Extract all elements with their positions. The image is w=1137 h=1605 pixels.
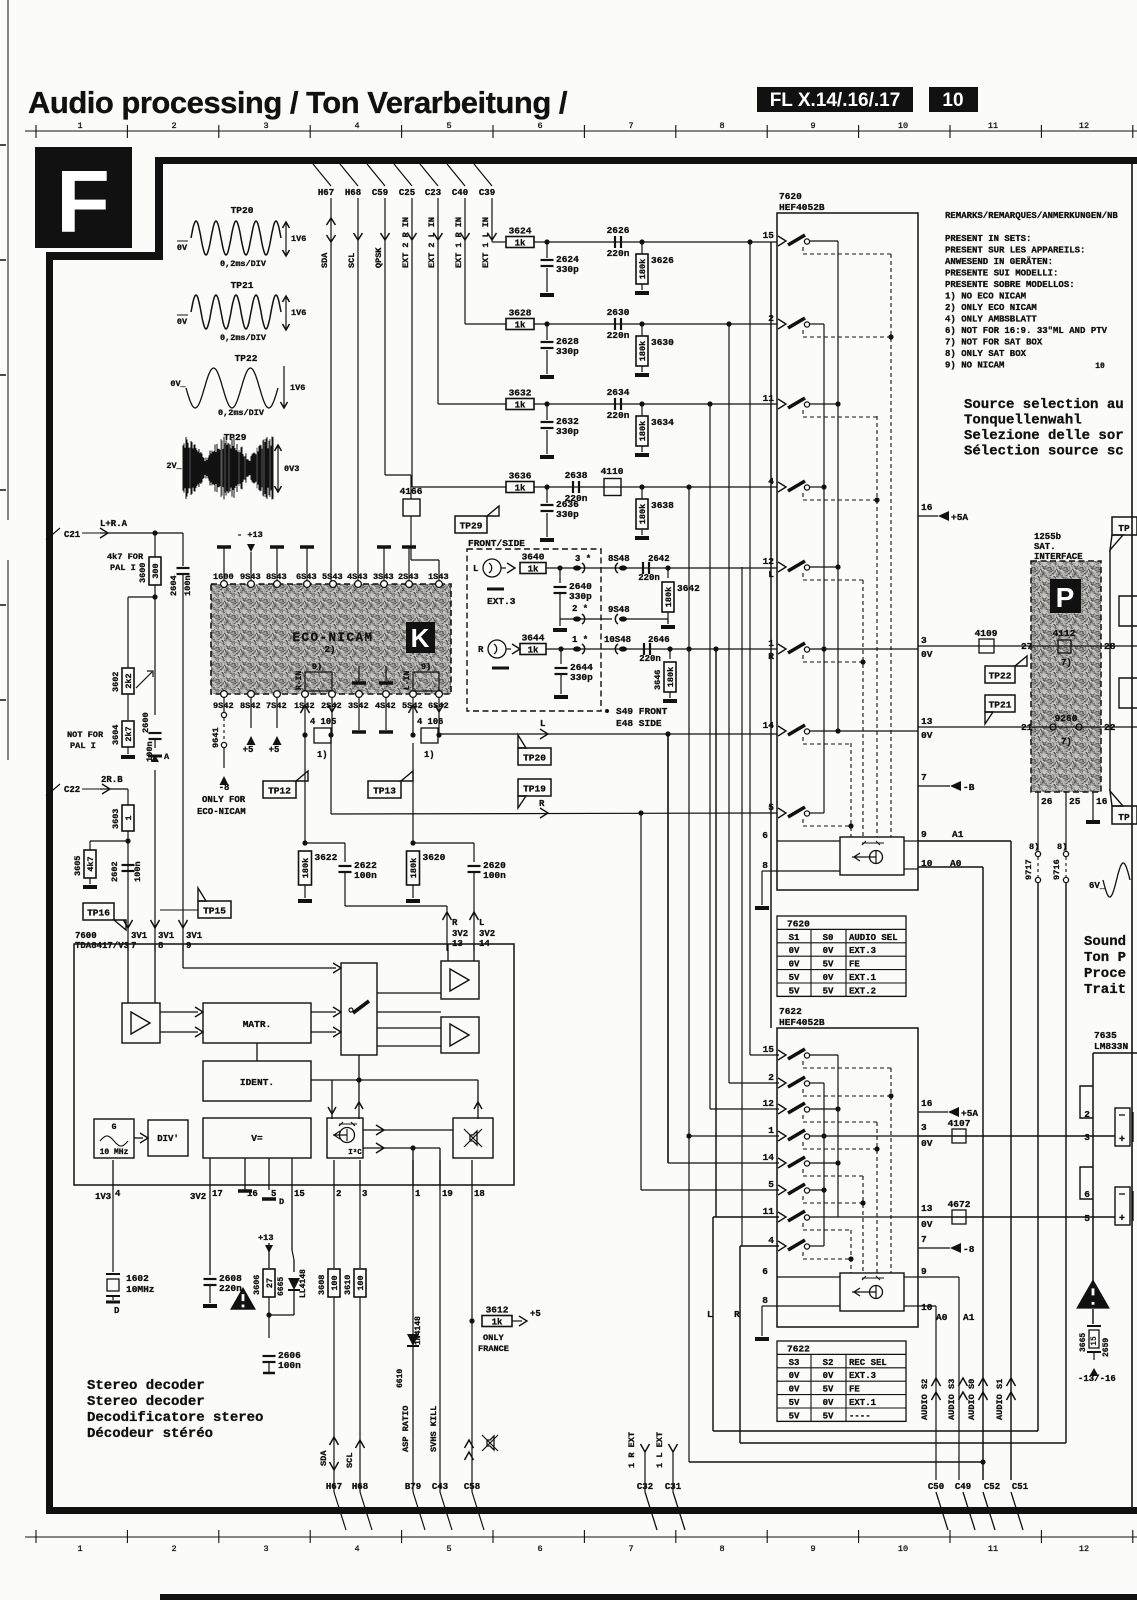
svg-text:2600: 2600 [141, 712, 151, 733]
svg-text:3602: 3602 [111, 672, 121, 692]
svg-text:+13: +13 [258, 1233, 273, 1243]
svg-text:8): 8) [1029, 842, 1039, 852]
svg-text:10: 10 [898, 1544, 908, 1554]
svg-text:180k: 180k [638, 341, 648, 361]
svg-text:2k7: 2k7 [124, 726, 134, 741]
svg-text:Tonquellenwahl: Tonquellenwahl [964, 413, 1082, 429]
svg-text:11: 11 [763, 393, 775, 404]
svg-text:1k: 1k [492, 1317, 503, 1327]
svg-text:ONLY FOR: ONLY FOR [202, 795, 246, 805]
svg-text:4 106: 4 106 [417, 717, 443, 727]
svg-text:6: 6 [762, 830, 768, 841]
svg-text:V=: V= [251, 1133, 263, 1144]
svg-text:0V: 0V [789, 946, 800, 956]
svg-text:2634: 2634 [607, 387, 630, 398]
svg-text:2S43: 2S43 [398, 572, 419, 582]
svg-text:TP29: TP29 [460, 521, 483, 532]
svg-text:7622: 7622 [779, 1006, 802, 1017]
svg-text:330p: 330p [556, 346, 579, 357]
svg-text:ONLY: ONLY [483, 1333, 504, 1343]
svg-text:16: 16 [921, 1098, 933, 1109]
svg-text:7: 7 [921, 772, 927, 783]
svg-text:7: 7 [628, 1544, 633, 1554]
svg-text:180k: 180k [301, 858, 311, 878]
svg-text:EXT.3: EXT.3 [849, 1371, 876, 1381]
svg-text:4S42: 4S42 [375, 701, 396, 711]
svg-text:2 *: 2 * [572, 604, 588, 614]
svg-text:S1: S1 [789, 933, 800, 943]
svg-text:Stereo decoder: Stereo decoder [87, 1378, 205, 1394]
svg-text:C21: C21 [64, 530, 81, 540]
svg-text:FE: FE [849, 1385, 860, 1395]
svg-text:100n: 100n [278, 1360, 301, 1371]
svg-text:1: 1 [768, 1125, 774, 1136]
svg-text:FL X.14/.16/.17: FL X.14/.16/.17 [770, 90, 901, 111]
svg-text:12: 12 [763, 556, 775, 567]
svg-text:0V: 0V [823, 1371, 834, 1381]
svg-text:C52: C52 [984, 1482, 1000, 1492]
svg-text:R-IN: R-IN [295, 671, 304, 690]
svg-text:1: 1 [124, 815, 134, 820]
svg-text:A: A [164, 752, 170, 762]
svg-text:330p: 330p [569, 591, 592, 602]
svg-text:9: 9 [186, 941, 191, 951]
svg-text:1k: 1k [528, 645, 539, 655]
svg-text:H67: H67 [318, 188, 334, 198]
svg-text:7: 7 [921, 1234, 927, 1245]
svg-text:C40: C40 [452, 188, 468, 198]
svg-text:EXT 1 R IN: EXT 1 R IN [454, 217, 464, 268]
svg-text:4: 4 [768, 1235, 774, 1246]
svg-text:11: 11 [988, 121, 998, 131]
svg-text:FE: FE [849, 960, 860, 970]
svg-text:S3: S3 [789, 1358, 800, 1368]
svg-text:0,2ms/DIV: 0,2ms/DIV [218, 408, 265, 418]
svg-text:A1: A1 [963, 1312, 975, 1323]
svg-text:0V_: 0V_ [170, 379, 186, 389]
svg-text:6610: 6610 [396, 1369, 405, 1388]
svg-text:220n: 220n [607, 410, 630, 421]
svg-text:EXT.1: EXT.1 [849, 1398, 877, 1408]
svg-text:AUDIO S1: AUDIO S1 [995, 1379, 1005, 1420]
svg-text:6) NOT FOR 16:9. 33"ML AND PTV: 6) NOT FOR 16:9. 33"ML AND PTV [945, 326, 1108, 336]
svg-text:1): 1) [317, 750, 328, 760]
svg-text:L: L [540, 719, 545, 729]
svg-text:3: 3 [921, 1122, 927, 1133]
svg-text:R: R [452, 918, 458, 928]
svg-text:0V3: 0V3 [284, 464, 299, 474]
svg-text:9260: 9260 [1055, 713, 1078, 724]
svg-text:9): 9) [312, 662, 322, 672]
svg-text:C49: C49 [955, 1482, 971, 1492]
svg-text:2630: 2630 [607, 307, 630, 318]
svg-text:9) NO NICAM: 9) NO NICAM [945, 361, 1004, 371]
svg-text:Stereo decoder: Stereo decoder [87, 1394, 205, 1410]
svg-text:8): 8) [1057, 842, 1067, 852]
svg-text:10: 10 [1095, 362, 1105, 371]
svg-text:1: 1 [77, 121, 82, 131]
svg-text:5V: 5V [789, 986, 800, 996]
svg-text:19: 19 [442, 1189, 453, 1199]
svg-text:3640: 3640 [522, 552, 545, 563]
svg-text:1k: 1k [515, 238, 526, 248]
svg-text:2: 2 [336, 1189, 341, 1199]
svg-text:1k: 1k [515, 483, 526, 493]
svg-text:9S42: 9S42 [213, 701, 234, 711]
svg-text:Trait: Trait [1084, 982, 1126, 998]
svg-text:26: 26 [1041, 796, 1053, 807]
svg-text:13: 13 [921, 1203, 933, 1214]
svg-text:3620: 3620 [423, 852, 446, 863]
svg-text:EXT 1 L IN: EXT 1 L IN [481, 217, 491, 268]
svg-text:L: L [479, 918, 484, 928]
svg-text:3634: 3634 [651, 417, 674, 428]
svg-text:2642: 2642 [648, 554, 670, 564]
svg-text:8: 8 [158, 941, 163, 951]
svg-text:8: 8 [762, 860, 768, 871]
svg-text:9716: 9716 [1052, 859, 1062, 880]
svg-text:0V: 0V [921, 730, 933, 741]
svg-text:S49 FRONT: S49 FRONT [616, 706, 668, 717]
svg-text:100: 100 [356, 1275, 366, 1290]
svg-text:SVHS KILL: SVHS KILL [429, 1406, 439, 1452]
svg-text:1) NO ECO NICAM: 1) NO ECO NICAM [945, 292, 1026, 302]
svg-text:15: 15 [763, 1044, 775, 1055]
svg-text:8: 8 [719, 1544, 724, 1554]
svg-text:L-IN: L-IN [403, 671, 412, 690]
svg-text:9: 9 [810, 121, 815, 131]
svg-text:12: 12 [1079, 1544, 1089, 1554]
svg-text:3632: 3632 [509, 388, 532, 399]
svg-text:S2: S2 [823, 1358, 834, 1368]
svg-text:220n: 220n [607, 330, 630, 341]
svg-text:220n: 220n [638, 573, 660, 583]
svg-text:EXT.3: EXT.3 [849, 946, 876, 956]
svg-text:0V: 0V [823, 1398, 834, 1408]
svg-text:1k: 1k [515, 320, 526, 330]
svg-text:2V_: 2V_ [166, 461, 182, 471]
svg-text:3: 3 [263, 121, 268, 131]
svg-text:1V3: 1V3 [95, 1192, 111, 1202]
svg-text:EXT.2: EXT.2 [849, 986, 876, 996]
svg-text:3600: 3600 [138, 563, 148, 583]
svg-text:300: 300 [151, 563, 161, 578]
svg-text:2659: 2659 [1102, 1338, 1111, 1357]
svg-text:5V: 5V [789, 1411, 800, 1421]
svg-text:2: 2 [171, 1544, 176, 1554]
svg-text:4 105: 4 105 [310, 717, 336, 727]
svg-text:L: L [473, 564, 478, 574]
svg-text:3S42: 3S42 [348, 701, 369, 711]
svg-text:100n: 100n [354, 870, 377, 881]
svg-text:1255b: 1255b [1034, 532, 1061, 542]
svg-text:10: 10 [921, 1302, 933, 1313]
svg-text:Source selection au: Source selection au [964, 397, 1124, 413]
svg-text:QPSK: QPSK [374, 247, 384, 268]
svg-text:4672: 4672 [948, 1199, 971, 1210]
svg-text:AUDIO SEL: AUDIO SEL [849, 933, 898, 943]
svg-text:PRESENT IN SETS:: PRESENT IN SETS: [945, 234, 1031, 244]
svg-text:4k7: 4k7 [86, 856, 96, 871]
svg-text:+5: +5 [269, 745, 280, 755]
svg-text:2602: 2602 [110, 861, 120, 882]
svg-text:EXT.1: EXT.1 [849, 973, 877, 983]
svg-text:AUDIO S0: AUDIO S0 [967, 1379, 977, 1420]
svg-text:TP22: TP22 [235, 353, 258, 364]
svg-text:180k: 180k [409, 858, 419, 878]
svg-text:7) NOT FOR SAT BOX: 7) NOT FOR SAT BOX [945, 338, 1043, 348]
svg-text:3: 3 [1084, 1132, 1090, 1143]
svg-text:3: 3 [362, 1189, 367, 1199]
svg-text:8S42: 8S42 [240, 701, 261, 711]
svg-text:REMARKS/REMARQUES/ANMERKUNGEN/: REMARKS/REMARQUES/ANMERKUNGEN/NB [945, 211, 1118, 221]
svg-text:9: 9 [921, 829, 927, 840]
svg-text:5: 5 [1084, 1213, 1090, 1224]
svg-text:1V6: 1V6 [291, 234, 306, 244]
svg-text:1: 1 [415, 1189, 421, 1199]
svg-text:5V: 5V [823, 1385, 834, 1395]
svg-text:0V: 0V [823, 973, 834, 983]
svg-text:4k7 FOR: 4k7 FOR [107, 552, 144, 562]
svg-text:9): 9) [421, 662, 431, 672]
svg-text:R: R [478, 645, 484, 655]
svg-text:SDA: SDA [320, 252, 330, 268]
svg-text:F: F [56, 152, 110, 251]
svg-text:ASP RATIO: ASP RATIO [401, 1406, 411, 1452]
svg-text:220n: 220n [607, 248, 630, 259]
svg-text:4) ONLY AMBSBLATT: 4) ONLY AMBSBLATT [945, 315, 1037, 325]
svg-text:10 MHz: 10 MHz [100, 1148, 129, 1157]
svg-text:A0: A0 [936, 1312, 948, 1323]
svg-text:3603: 3603 [111, 809, 121, 829]
svg-text:100n: 100n [133, 861, 143, 882]
svg-text:7600: 7600 [75, 931, 97, 941]
svg-text:L+R.A: L+R.A [100, 519, 128, 529]
svg-text:LL4148: LL4148 [299, 1269, 308, 1298]
svg-text:7: 7 [628, 121, 633, 131]
svg-text:2R.B: 2R.B [101, 775, 123, 785]
svg-text:Selezione delle sor: Selezione delle sor [964, 428, 1124, 444]
svg-text:5V: 5V [789, 1398, 800, 1408]
svg-text:9717: 9717 [1024, 859, 1034, 880]
svg-text:+: + [1119, 1214, 1125, 1225]
svg-text:3605: 3605 [73, 856, 83, 876]
svg-text:3V1: 3V1 [131, 931, 148, 941]
svg-text:6: 6 [1084, 1189, 1090, 1200]
svg-text:8S43: 8S43 [266, 572, 287, 582]
svg-text:C25: C25 [399, 188, 415, 198]
svg-text:3: 3 [921, 635, 927, 646]
svg-text:0,2ms/DIV: 0,2ms/DIV [220, 259, 267, 269]
svg-text:3610: 3610 [343, 1275, 353, 1295]
svg-text:3612: 3612 [486, 1305, 509, 1316]
svg-text:C59: C59 [372, 188, 388, 198]
svg-text:EXT 2 L IN: EXT 2 L IN [427, 217, 437, 268]
svg-text:3S43: 3S43 [373, 572, 394, 582]
svg-text:3606: 3606 [252, 1275, 262, 1295]
svg-text:C58: C58 [464, 1482, 480, 1492]
svg-text:13: 13 [921, 716, 933, 727]
svg-text:HEF4052B: HEF4052B [779, 202, 825, 213]
svg-text:3636: 3636 [509, 471, 532, 482]
svg-text:Sélection source sc: Sélection source sc [964, 444, 1124, 460]
svg-text:-B: -B [963, 782, 975, 793]
svg-text:REC SEL: REC SEL [849, 1358, 887, 1368]
svg-text:180k: 180k [638, 421, 648, 441]
svg-text:7): 7) [1061, 658, 1072, 668]
svg-text:ANWESEND IN GERÄTEN:: ANWESEND IN GERÄTEN: [945, 256, 1053, 267]
svg-text:1): 1) [424, 750, 435, 760]
svg-text:D: D [279, 1197, 284, 1207]
svg-text:180k: 180k [664, 587, 674, 607]
svg-text:1S43: 1S43 [428, 572, 449, 582]
svg-text:TP22: TP22 [989, 671, 1012, 682]
svg-text:LM833N: LM833N [1094, 1041, 1129, 1052]
svg-text:Ton P: Ton P [1084, 950, 1126, 966]
svg-text:A1: A1 [952, 829, 964, 840]
svg-text:12: 12 [763, 1098, 775, 1109]
svg-text:3626: 3626 [651, 255, 674, 266]
svg-text:14: 14 [763, 1152, 775, 1163]
svg-text:2: 2 [1084, 1109, 1090, 1120]
svg-text:3604: 3604 [111, 725, 121, 745]
svg-text:+5: +5 [243, 745, 254, 755]
svg-text:Decodificatore stereo: Decodificatore stereo [87, 1410, 263, 1426]
svg-text:5V: 5V [789, 973, 800, 983]
svg-text:4107: 4107 [948, 1118, 971, 1129]
svg-text:18: 18 [474, 1189, 485, 1199]
svg-text:0V: 0V [921, 1138, 933, 1149]
svg-text:2626: 2626 [607, 225, 630, 236]
svg-text:PRESENTE SUI MODELLI:: PRESENTE SUI MODELLI: [945, 269, 1058, 279]
svg-text:R: R [539, 799, 545, 809]
svg-text:5: 5 [768, 1179, 774, 1190]
svg-text:330p: 330p [556, 509, 579, 520]
svg-text:2604: 2604 [169, 575, 179, 596]
svg-text:PRESENTE SOBRE MODELLOS:: PRESENTE SOBRE MODELLOS: [945, 280, 1075, 290]
svg-text:SCL: SCL [345, 1453, 355, 1468]
svg-text:-8: -8 [963, 1244, 975, 1255]
svg-text:21: 21 [1021, 722, 1033, 733]
svg-text:1k: 1k [515, 400, 526, 410]
svg-text:9: 9 [810, 1544, 815, 1554]
svg-text:100n: 100n [183, 575, 193, 596]
svg-text:P: P [1056, 582, 1075, 613]
svg-text:TP: TP [1118, 812, 1130, 823]
svg-text:Décodeur stéréo: Décodeur stéréo [87, 1426, 213, 1442]
svg-text:5V: 5V [823, 986, 834, 996]
svg-text:330p: 330p [556, 426, 579, 437]
svg-text:3630: 3630 [651, 337, 674, 348]
svg-text:TP21: TP21 [231, 280, 254, 291]
svg-text:EXT 2 R IN: EXT 2 R IN [401, 217, 411, 268]
svg-text:5V: 5V [823, 960, 834, 970]
svg-text:0V: 0V [921, 649, 933, 660]
svg-text:27: 27 [1021, 641, 1033, 652]
svg-text:----: ---- [849, 1411, 871, 1421]
svg-text:0V: 0V [921, 1219, 933, 1230]
svg-text:3V1: 3V1 [158, 931, 175, 941]
svg-text:1k: 1k [528, 564, 539, 574]
svg-text:3V1: 3V1 [186, 931, 203, 941]
svg-text:11: 11 [763, 1206, 775, 1217]
svg-text:HEF4052B: HEF4052B [779, 1017, 825, 1028]
svg-text:7620: 7620 [787, 918, 810, 929]
svg-text:2k2: 2k2 [124, 673, 134, 688]
svg-text:Audio processing / Ton Verarbe: Audio processing / Ton Verarbeitung / [28, 85, 568, 120]
svg-text:1600: 1600 [213, 572, 234, 582]
svg-text:TP: TP [1118, 523, 1130, 534]
svg-text:TP12: TP12 [268, 786, 291, 797]
svg-text:3646: 3646 [653, 670, 663, 690]
svg-text:25: 25 [1069, 796, 1081, 807]
svg-text:9S43: 9S43 [240, 572, 261, 582]
svg-text:0V: 0V [789, 960, 800, 970]
svg-text:+5A: +5A [951, 512, 968, 523]
svg-text:H68: H68 [345, 188, 361, 198]
svg-text:12: 12 [1079, 121, 1089, 131]
svg-text:D: D [114, 1306, 120, 1316]
svg-text:1 R EXT: 1 R EXT [627, 1432, 637, 1468]
svg-text:4166: 4166 [400, 486, 423, 497]
svg-text:I²C: I²C [348, 1148, 362, 1157]
svg-text:1V6: 1V6 [290, 383, 305, 393]
svg-text:3608: 3608 [317, 1275, 327, 1295]
svg-text:C50: C50 [928, 1482, 944, 1492]
svg-text:1: 1 [77, 1544, 82, 1554]
svg-text:10: 10 [898, 121, 908, 131]
svg-text:C43: C43 [432, 1482, 448, 1492]
svg-text:L: L [707, 1309, 713, 1320]
svg-text:15: 15 [763, 230, 775, 241]
svg-text:C22: C22 [64, 785, 80, 795]
svg-text:5V: 5V [823, 1411, 834, 1421]
svg-text:4109: 4109 [975, 628, 998, 639]
svg-text:H68: H68 [352, 1482, 368, 1492]
svg-text:AUDIO S3: AUDIO S3 [947, 1379, 957, 1420]
svg-text:2: 2 [171, 121, 176, 131]
svg-text:K: K [411, 623, 430, 653]
svg-text:DIV': DIV' [157, 1134, 179, 1144]
svg-text:2646: 2646 [648, 635, 670, 645]
svg-text:TP21: TP21 [989, 700, 1012, 711]
svg-text:3622: 3622 [315, 852, 338, 863]
svg-text:TP13: TP13 [373, 786, 396, 797]
svg-text:2: 2 [768, 1072, 774, 1083]
svg-text:10MHz: 10MHz [126, 1284, 155, 1295]
svg-text:6S43: 6S43 [296, 572, 317, 582]
svg-text:17: 17 [212, 1189, 223, 1199]
svg-text:4: 4 [354, 121, 359, 131]
svg-text:220n: 220n [639, 654, 661, 664]
svg-text:3638: 3638 [651, 500, 674, 511]
svg-text:7: 7 [131, 941, 136, 951]
svg-text:8: 8 [762, 1295, 768, 1306]
svg-text:3V2: 3V2 [479, 929, 495, 939]
svg-text:5: 5 [446, 1544, 451, 1554]
svg-text:0,2ms/DIV: 0,2ms/DIV [220, 333, 267, 343]
svg-text:180k: 180k [638, 504, 648, 524]
svg-text:+5: +5 [530, 1309, 541, 1319]
svg-text:-13/-16: -13/-16 [1078, 1374, 1116, 1384]
svg-text:B79: B79 [405, 1482, 421, 1492]
svg-text:- +13: - +13 [237, 530, 263, 540]
svg-text:3V2: 3V2 [452, 929, 468, 939]
svg-text:SCL: SCL [347, 253, 357, 268]
svg-text:6: 6 [537, 121, 542, 131]
svg-text:4: 4 [115, 1189, 121, 1199]
svg-text:C39: C39 [479, 188, 495, 198]
